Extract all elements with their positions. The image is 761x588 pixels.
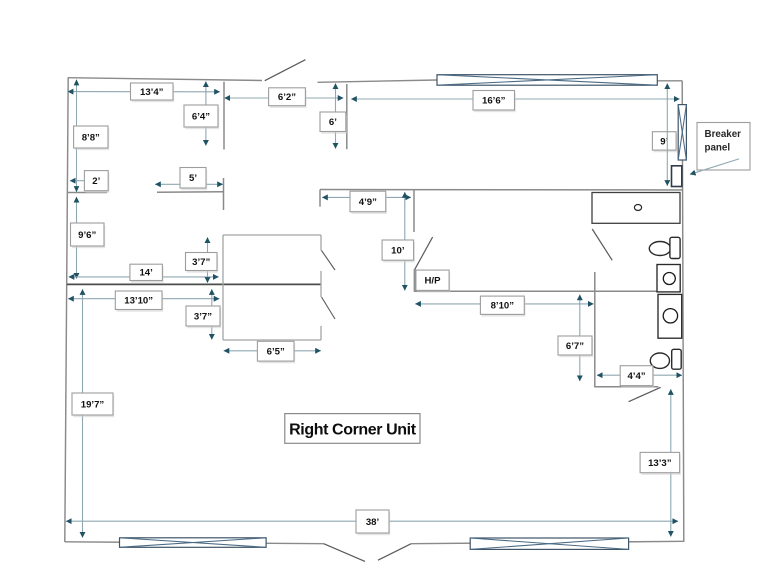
svg-text:13’3”: 13’3” [648, 458, 672, 469]
svg-text:Right Corner Unit: Right Corner Unit [289, 421, 417, 438]
svg-text:3’7”: 3’7” [194, 311, 212, 322]
svg-text:6’5”: 6’5” [267, 347, 285, 358]
svg-text:H/P: H/P [425, 276, 442, 287]
svg-text:panel: panel [705, 143, 731, 154]
svg-text:6’7”: 6’7” [566, 341, 584, 352]
svg-text:9’6”: 9’6” [78, 230, 96, 241]
svg-text:Breaker: Breaker [705, 129, 742, 140]
svg-text:19’7”: 19’7” [81, 399, 105, 410]
svg-text:8’10”: 8’10” [491, 301, 515, 312]
svg-text:3’7”: 3’7” [192, 257, 210, 268]
svg-text:10’: 10’ [391, 246, 405, 257]
svg-text:4’9”: 4’9” [359, 197, 377, 208]
svg-text:13’10”: 13’10” [124, 296, 153, 307]
svg-text:8’8”: 8’8” [82, 132, 100, 143]
svg-text:14’: 14’ [139, 268, 153, 279]
svg-text:2’: 2’ [92, 176, 100, 187]
svg-text:6’4”: 6’4” [192, 111, 210, 122]
svg-text:38’: 38’ [366, 517, 380, 528]
svg-text:4’4”: 4’4” [627, 371, 645, 382]
svg-text:13’4”: 13’4” [140, 87, 164, 98]
svg-text:16’6”: 16’6” [482, 96, 506, 107]
svg-text:6’: 6’ [329, 117, 337, 128]
svg-text:6’2”: 6’2” [278, 92, 296, 103]
svg-text:5’: 5’ [189, 173, 197, 184]
